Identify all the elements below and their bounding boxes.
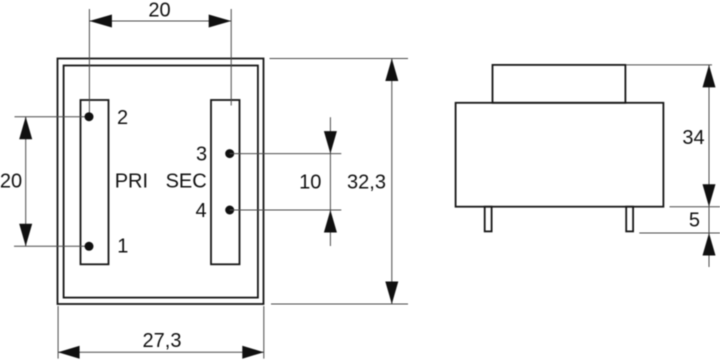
dimension 34: dimension line (continues down through 5 dim) — [708, 65, 710, 267]
dimension 20 (top): value label — [148, 0, 170, 22]
svg-text:SEC: SEC — [166, 170, 207, 192]
pin 1 number — [117, 236, 128, 258]
dimension 20 (top): left arrowhead — [89, 15, 112, 28]
dimension 32,3 (body length): extension lines — [270, 59, 409, 305]
dimension 10: value label — [299, 172, 321, 194]
side view: right terminal pin — [626, 207, 633, 232]
dimension 20 (top, pin pitch): extension lines — [89, 9, 231, 116]
svg-text:27,3: 27,3 — [143, 330, 182, 352]
dimension 27,3 (body width): extension lines — [58, 306, 264, 359]
dimension 5 (pin length): extension lines — [639, 207, 720, 233]
dimension 32,3: dimension line — [391, 59, 393, 305]
dimension 5: value label — [689, 210, 700, 232]
pin 1 pad — [85, 242, 94, 251]
dimension 20 (left): up arrowhead — [19, 117, 32, 140]
pin 4 pad — [225, 206, 234, 215]
top view: inner body outline — [64, 66, 258, 298]
dimension 5: up arrowhead (below, pointing up) — [703, 233, 716, 256]
top view: outer body outline — [58, 59, 264, 305]
dimension 34: up arrowhead — [703, 65, 716, 88]
svg-text:3: 3 — [196, 144, 207, 166]
svg-text:1: 1 — [117, 236, 128, 258]
pin 2 number — [117, 107, 128, 129]
svg-text:10: 10 — [299, 172, 321, 194]
svg-text:2: 2 — [117, 107, 128, 129]
dimension 34: value label — [682, 127, 704, 149]
dimension 10: lower arrowhead (pointing up) — [324, 210, 337, 233]
svg-text:PRI: PRI — [115, 170, 148, 192]
dimension 27,3: right arrowhead — [242, 346, 263, 359]
dimension 27,3: left arrowhead — [58, 346, 80, 359]
svg-text:5: 5 — [689, 210, 700, 232]
svg-text:20: 20 — [0, 171, 22, 193]
dimension 10 (secondary pin pitch): extension lines — [230, 154, 342, 210]
dimension 20 (left): dimension line — [25, 117, 27, 247]
dimension 34: down arrowhead (shared with dim 5) — [703, 184, 716, 207]
dimension 32,3: down arrowhead — [385, 282, 398, 305]
dimension 20 (left): down arrowhead — [19, 224, 32, 247]
dimension 20 (left): value label — [0, 171, 22, 193]
dimension 27,3: dimension line — [58, 351, 264, 353]
svg-text:4: 4 — [195, 200, 206, 222]
side view: coil bump outline — [493, 65, 626, 103]
PRI winding label — [115, 170, 148, 192]
dimension 20 (top): right arrowhead — [209, 15, 232, 28]
dimension 10: dimension line — [329, 117, 331, 246]
side view: main body outline — [456, 103, 664, 207]
pin 3 pad — [225, 149, 234, 158]
svg-text:20: 20 — [148, 0, 170, 22]
pin 3 number — [196, 144, 207, 166]
primary bobbin slot — [81, 100, 109, 264]
pin 2 pad — [85, 112, 94, 121]
dimension 10: upper arrowhead (pointing down) — [324, 131, 337, 154]
dimension 20 (left, pin pitch): extension lines — [14, 117, 89, 247]
svg-text:34: 34 — [682, 127, 704, 149]
side view: left terminal pin — [485, 207, 492, 232]
dimension 20 (top): dimension line — [89, 20, 231, 22]
pin 4 number — [195, 200, 206, 222]
dimension 27,3: value label — [143, 330, 182, 352]
secondary bobbin slot — [211, 100, 240, 264]
svg-text:32,3: 32,3 — [347, 172, 386, 194]
dimension 32,3: up arrowhead — [385, 59, 398, 82]
dimension 34 (height): extension line — [626, 64, 712, 66]
dimension 32,3: value label — [347, 172, 386, 194]
SEC winding label — [166, 170, 207, 192]
